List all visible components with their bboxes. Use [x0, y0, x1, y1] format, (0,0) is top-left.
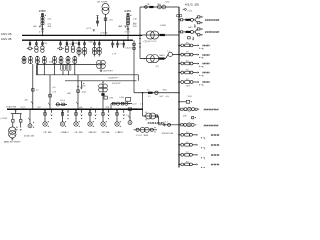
svg-text:[3kV?F7]??: [3kV?F7]?? — [104, 70, 114, 72]
svg-text:7.4: 7.4 — [126, 115, 129, 117]
svg-text:#101#1B: #101#1B — [148, 122, 165, 125]
svg-text:#####: ##### — [202, 53, 210, 57]
svg-text:ANLR? EM?: ANLR? EM? — [4, 141, 22, 144]
svg-text:d 7 41: d 7 41 — [39, 31, 44, 33]
svg-text:H1/1 1B: H1/1 1B — [185, 5, 200, 7]
svg-text:W1: W1 — [186, 52, 189, 54]
svg-text:+C6C: +C6C — [187, 11, 193, 13]
svg-text:1.2: 1.2 — [147, 90, 150, 92]
svg-text:H02: H02 — [160, 96, 163, 98]
svg-text:#####: ##### — [202, 71, 210, 75]
svg-text:W1: W1 — [186, 61, 189, 63]
svg-text:######: ###### — [204, 123, 220, 127]
svg-text:-408: -408 — [67, 93, 71, 95]
svg-text:-C10: -C10 — [133, 18, 137, 20]
svg-text:#B#F: #B#F — [88, 132, 98, 134]
svg-text:### 1B: ### 1B — [136, 135, 150, 137]
svg-text:-7(?): -7(?) — [155, 66, 159, 68]
svg-text:1 (L7: 1 (L7 — [36, 61, 40, 63]
svg-text:1000 1B: 1000 1B — [24, 135, 35, 137]
svg-text:#JBX: #JBX — [39, 11, 47, 13]
svg-text:+0.05-0.8: +0.05-0.8 — [125, 48, 132, 50]
svg-text:H0(2: H0(2 — [163, 90, 167, 92]
svg-text:(7)#####: (7)##### — [144, 41, 158, 43]
svg-text:###: ### — [211, 153, 220, 157]
svg-text:C(C): C(C) — [165, 1, 169, 3]
svg-text:1.81: 1.81 — [119, 44, 122, 46]
svg-text:(-1%): (-1%) — [120, 97, 125, 99]
svg-text:(-1.5kW: (-1.5kW — [0, 118, 7, 120]
svg-text:C1-7: C1-7 — [164, 121, 168, 123]
svg-text:#F 1B: #F 1B — [43, 132, 53, 134]
svg-text:3CH4: 3CH4 — [22, 59, 27, 61]
svg-text:T01-7: T01-7 — [188, 96, 193, 98]
svg-text:10kV 1B: 10kV 1B — [1, 33, 12, 36]
svg-text:0(-: 0(- — [90, 107, 93, 109]
svg-text:+0(-): +0(-) — [165, 96, 169, 98]
svg-text:W1: W1 — [186, 79, 189, 81]
svg-text:-C10: -C10 — [47, 18, 51, 20]
svg-text:-4CB: -4CB — [82, 92, 87, 94]
svg-text:(-0.8: (-0.8 — [133, 104, 137, 106]
svg-text:#F 1B: #F 1B — [74, 132, 84, 134]
svg-text:DR #CRFF: DR #CRFF — [97, 1, 108, 3]
svg-text:######: ###### — [204, 108, 220, 112]
svg-text:W2: W2 — [186, 132, 189, 134]
svg-text:+17: +17 — [118, 26, 121, 28]
svg-text:6.1: 6.1 — [148, 96, 151, 98]
svg-text:+C1: +C1 — [68, 43, 71, 45]
svg-text:-(D4+: -(D4+ — [79, 107, 84, 109]
svg-text:(7)#1: (7)#1 — [186, 86, 190, 88]
svg-text:#####: ##### — [202, 44, 210, 48]
svg-text:1(-0.4: 1(-0.4 — [60, 100, 65, 102]
svg-text:XXLF#B: XXLF#B — [162, 133, 174, 135]
svg-text:W2: W2 — [186, 161, 189, 163]
svg-text:1.1: 1.1 — [36, 90, 39, 92]
svg-text:########: ######## — [205, 18, 220, 22]
svg-text:W2: W2 — [186, 142, 189, 144]
svg-text:d 7 41: d 7 41 — [124, 31, 129, 33]
svg-text:-C8D: -C8D — [43, 43, 48, 45]
svg-text:10kV 2B: 10kV 2B — [1, 38, 12, 41]
svg-text:########: ######## — [205, 30, 220, 34]
svg-text:#JBX: #JBX — [124, 11, 132, 13]
svg-text:W2: W2 — [186, 152, 189, 154]
svg-text:-018: -018 — [82, 86, 86, 88]
svg-text:+05: +05 — [52, 87, 55, 89]
svg-text:5dB?: 5dB? — [188, 27, 192, 29]
svg-text:+0.8: +0.8 — [52, 92, 56, 94]
svg-text:(C): (C) — [133, 23, 136, 25]
svg-text:GdB##: GdB## — [159, 55, 165, 57]
svg-text:1.0689: 1.0689 — [160, 25, 166, 27]
svg-text:-0.7%: -0.7% — [86, 28, 91, 30]
svg-text:-0C0: -0C0 — [109, 19, 113, 21]
svg-text:-0.7B 1B: -0.7B 1B — [100, 33, 108, 35]
svg-text:W1: W1 — [186, 70, 189, 72]
svg-text:+1.0: +1.0 — [112, 44, 115, 46]
svg-text:1+98: 1+98 — [109, 98, 113, 100]
svg-text:###: ### — [211, 143, 220, 147]
svg-text:(2)4kV?F7?: (2)4kV?F7? — [109, 77, 119, 79]
svg-text:#####: ##### — [202, 80, 210, 84]
svg-text:1.1: 1.1 — [167, 51, 170, 53]
svg-text:3CH: 3CH — [49, 61, 53, 63]
svg-text:###: ### — [211, 133, 220, 137]
svg-text:#F1B: #F1B — [101, 132, 111, 134]
svg-text:-C8D: -C8D — [73, 43, 78, 45]
svg-text:W1: W1 — [186, 42, 189, 44]
svg-text:###: ### — [211, 163, 220, 167]
svg-text:0.5kV?19*: 0.5kV?19* — [112, 83, 121, 85]
svg-text:0.4kV#B: 0.4kV#B — [6, 106, 17, 108]
svg-text:#####: ##### — [202, 62, 210, 66]
